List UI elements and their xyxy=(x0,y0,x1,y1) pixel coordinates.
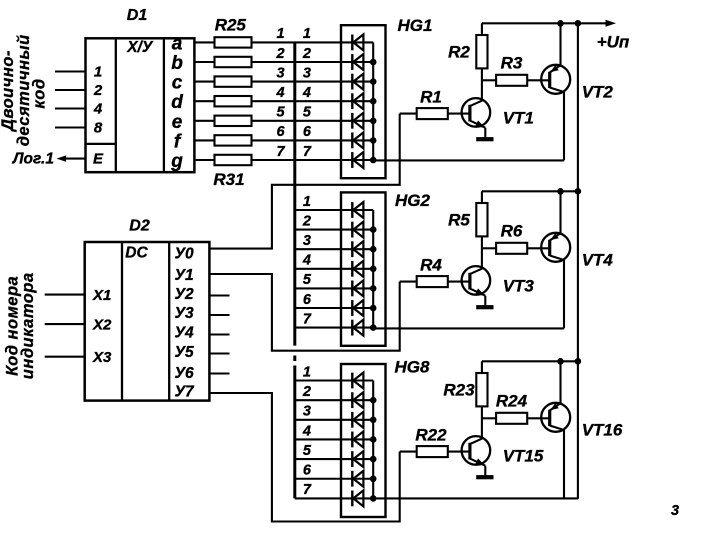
indicator HG2 box xyxy=(341,192,386,345)
wire bus tap to HG2 pin 7 xyxy=(295,327,341,329)
svg-text:X2: X2 xyxy=(92,317,112,334)
resistor R4 xyxy=(417,276,448,287)
ground symbol VT15 xyxy=(476,475,493,479)
HG1 LED diode 3 xyxy=(352,74,363,90)
wire D2 output Y5 stub xyxy=(209,352,229,354)
svg-text:R2: R2 xyxy=(448,43,470,62)
VT3 base bar xyxy=(468,273,471,290)
HG2 segment wire 3 xyxy=(341,248,373,250)
wire D1 out row 6 xyxy=(194,139,214,141)
wire D1 out row 4 xyxy=(194,100,214,102)
svg-text:a: a xyxy=(172,33,183,54)
svg-text:e: e xyxy=(172,112,183,133)
resistor R6 xyxy=(496,243,527,254)
bus line vertical lower xyxy=(293,366,296,499)
VT15 collector xyxy=(470,438,483,444)
HG1 segment wire 2 xyxy=(341,61,373,63)
junction dot rail main VT4 xyxy=(575,188,582,195)
HG1 LED diode 2 xyxy=(352,54,363,70)
wire R4 left xyxy=(400,281,417,283)
svg-text:R24: R24 xyxy=(496,392,528,411)
VT1 base bar xyxy=(468,105,471,122)
HG1 LED diode 7 xyxy=(352,152,363,168)
wire R2 to collector node xyxy=(481,68,483,100)
resistor R29 xyxy=(215,116,252,126)
VT4 base bar xyxy=(548,240,551,256)
transistor VT16 body xyxy=(541,403,570,432)
VT4 collector xyxy=(550,256,564,261)
svg-text:У2: У2 xyxy=(175,286,194,303)
wire bus tap to HG8 pin 2 xyxy=(295,399,341,401)
HG1 common anode line xyxy=(372,42,374,160)
wire bus tap to HG8 pin 6 xyxy=(295,478,341,480)
VT2 emitter xyxy=(550,65,561,73)
wire VT1 emitter to ground xyxy=(484,128,486,138)
HG1 segment wire 7 xyxy=(341,159,373,161)
svg-text:VT2: VT2 xyxy=(582,83,614,102)
svg-text:У6: У6 xyxy=(175,365,194,382)
transistor VT2 body xyxy=(541,65,570,94)
wire R30 to HG1 pin 6 xyxy=(252,139,342,141)
wire R27 to HG1 pin 3 xyxy=(252,81,342,83)
HG1 junction dot 2 xyxy=(370,59,377,66)
HG8 LED diode 6 xyxy=(352,471,363,487)
HG1 segment wire 5 xyxy=(341,120,373,122)
svg-text:b: b xyxy=(171,53,183,74)
wire net Y7 from D2 to R22 xyxy=(209,393,399,522)
wire R24 to VT16 base xyxy=(527,417,550,419)
IC D1 decoder box xyxy=(86,38,195,172)
svg-text:R4: R4 xyxy=(420,256,442,275)
wire bus tap to HG8 pin 7 xyxy=(295,497,341,499)
wire D2 output Y6 stub xyxy=(209,372,229,374)
indicator HG1 box xyxy=(341,25,386,178)
svg-text:Лог.1: Лог.1 xyxy=(12,151,54,168)
resistor R24 xyxy=(496,413,527,424)
svg-text:R25: R25 xyxy=(215,16,247,35)
HG2 junction dot 7 xyxy=(370,324,377,331)
svg-text:R1: R1 xyxy=(420,88,442,107)
wire D2 input X2 xyxy=(45,323,85,325)
VT16 emitter xyxy=(550,403,561,411)
wire R4 to VT3 base xyxy=(448,281,470,283)
rotated label binary-decimal code xyxy=(0,34,49,146)
wire D2 output Y4 stub xyxy=(209,333,229,335)
VT3 collector xyxy=(470,268,483,274)
wire bus tap to HG2 pin 6 xyxy=(295,307,341,309)
transistor VT3 body xyxy=(462,266,491,295)
junction dot rail emitter VT4 xyxy=(557,188,564,195)
svg-text:6: 6 xyxy=(303,463,312,479)
resistor R2 xyxy=(476,35,487,68)
wire bus tap to HG8 pin 3 xyxy=(295,419,341,421)
HG2 segment wire 5 xyxy=(341,287,373,289)
wire R1 left xyxy=(400,113,417,115)
svg-text:6: 6 xyxy=(277,124,286,140)
svg-text:код: код xyxy=(31,78,49,108)
HG2 LED diode 6 xyxy=(352,300,363,316)
VT1 collector xyxy=(470,100,483,106)
VT4 emitter xyxy=(550,233,561,241)
svg-text:2: 2 xyxy=(276,46,285,62)
HG2 junction dot 6 xyxy=(370,305,377,312)
HG1 junction dot 6 xyxy=(370,137,377,144)
main +Up rail vertical xyxy=(577,23,579,499)
wire R28 to HG1 pin 4 xyxy=(252,100,342,102)
bus break dash xyxy=(293,356,296,362)
HG2 LED diode 5 xyxy=(352,280,363,296)
wire net Y0 from D2 to R1 xyxy=(209,114,399,249)
svg-text:4: 4 xyxy=(302,85,311,101)
local rail section VT4 xyxy=(482,190,578,192)
svg-text:VT3: VT3 xyxy=(503,277,535,296)
wire VT2 collector to display common xyxy=(373,159,564,161)
svg-text:3: 3 xyxy=(303,404,311,420)
HG1 junction dot 7 xyxy=(370,157,377,164)
wire R22 to VT15 base xyxy=(448,451,470,453)
wire VT4 collector to display common xyxy=(373,327,564,329)
wire bus tap to HG2 pin 1 xyxy=(295,209,341,211)
wire net Y1 from D2 to R4 xyxy=(209,274,399,351)
junction dot rail main VT2 xyxy=(575,20,582,27)
rotated label indicator number code xyxy=(4,272,38,379)
svg-text:DC: DC xyxy=(125,245,148,262)
HG8 junction dot 6 xyxy=(370,475,377,482)
wire D1 out row 5 xyxy=(194,120,214,122)
svg-text:3: 3 xyxy=(303,233,311,249)
wire R29 to HG1 pin 5 xyxy=(252,120,342,122)
resistor R22 xyxy=(417,446,448,457)
svg-text:R23: R23 xyxy=(443,381,475,400)
HG2 LED diode 4 xyxy=(352,261,363,277)
wire bus tap to HG2 pin 3 xyxy=(295,248,341,250)
wire VT4 collector down xyxy=(563,260,565,329)
svg-text:d: d xyxy=(171,92,183,113)
svg-text:6: 6 xyxy=(303,292,312,308)
D1 column divider left xyxy=(115,38,117,172)
wire D1 out row 3 xyxy=(194,81,214,83)
resistor R1 xyxy=(417,108,448,119)
transistor VT15 body xyxy=(462,436,491,465)
transistor VT1 body xyxy=(462,98,491,127)
resistor R23 xyxy=(476,373,487,406)
svg-text:VT4: VT4 xyxy=(582,251,614,270)
svg-text:8: 8 xyxy=(94,120,103,137)
svg-text:У5: У5 xyxy=(175,344,194,361)
wire VT16 collector down xyxy=(563,430,565,499)
HG2 common anode line xyxy=(372,210,374,328)
svg-text:1: 1 xyxy=(94,64,102,81)
HG8 junction dot 7 xyxy=(370,495,377,502)
wire bus tap to HG2 pin 5 xyxy=(295,287,341,289)
svg-text:HG2: HG2 xyxy=(395,191,431,210)
wire bus tap to HG8 pin 1 xyxy=(295,379,341,381)
VT1 emitter xyxy=(470,120,485,127)
arrow +Up xyxy=(606,20,617,27)
HG1 LED diode 4 xyxy=(352,93,363,109)
HG8 LED diode 7 xyxy=(352,490,363,506)
HG2 segment wire 2 xyxy=(341,229,373,231)
HG8 segment wire 3 xyxy=(341,419,373,421)
wire R6 to VT4 base xyxy=(527,247,550,249)
wire VT3 emitter to ground xyxy=(484,296,486,306)
HG8 LED diode 4 xyxy=(352,431,363,447)
HG2 LED diode 1 xyxy=(352,202,363,218)
svg-text:R22: R22 xyxy=(415,426,447,445)
wire bus tap to HG2 pin 4 xyxy=(295,268,341,270)
local rail section VT16 xyxy=(482,360,578,362)
bus line vertical upper xyxy=(293,42,296,345)
HG8 segment wire 1 xyxy=(341,379,373,381)
svg-text:X3: X3 xyxy=(92,349,112,366)
svg-text:7: 7 xyxy=(277,144,286,160)
svg-text:3: 3 xyxy=(303,65,311,81)
svg-text:X/У: X/У xyxy=(126,39,154,56)
HG1 junction dot 3 xyxy=(370,78,377,85)
resistor R5 xyxy=(476,203,487,236)
D2 column divider right xyxy=(168,242,170,401)
HG2 junction dot 4 xyxy=(370,266,377,273)
wire D2 output Y3 stub xyxy=(209,314,229,316)
VT15 base bar xyxy=(468,443,471,460)
HG8 junction dot 5 xyxy=(370,456,377,463)
svg-text:HG8: HG8 xyxy=(395,358,431,377)
svg-text:3: 3 xyxy=(671,503,679,519)
wire D1 input 8 xyxy=(55,126,86,128)
HG8 LED diode 3 xyxy=(352,412,363,428)
svg-text:4: 4 xyxy=(93,101,103,118)
wire node to R24 xyxy=(482,417,496,419)
svg-text:VT1: VT1 xyxy=(503,109,534,128)
HG1 LED diode 6 xyxy=(352,132,363,148)
wire VT2 emitter to rail xyxy=(559,23,561,65)
junction dot rail emitter VT2 xyxy=(557,20,564,27)
wire rail to R23 xyxy=(481,361,483,373)
svg-text:g: g xyxy=(170,151,183,172)
HG1 junction dot 4 xyxy=(370,98,377,105)
wire bus tap to HG2 pin 2 xyxy=(295,229,341,231)
wire rail to R2 xyxy=(481,23,483,35)
HG1 segment wire 3 xyxy=(341,81,373,83)
VT16 collector xyxy=(550,426,564,431)
HG8 LED diode 1 xyxy=(352,373,363,389)
wire R3 to VT2 base xyxy=(527,79,550,81)
wire VT16 emitter to rail xyxy=(559,361,561,403)
svg-text:У4: У4 xyxy=(175,325,194,342)
svg-text:7: 7 xyxy=(303,482,312,498)
HG1 LED diode 1 xyxy=(352,34,363,50)
svg-text:+Uп: +Uп xyxy=(597,33,630,52)
svg-text:1: 1 xyxy=(303,26,311,42)
svg-text:3: 3 xyxy=(277,65,285,81)
HG2 junction dot 2 xyxy=(370,226,377,233)
HG2 LED diode 3 xyxy=(352,241,363,257)
resistor R27 xyxy=(215,76,252,86)
VT2 base bar xyxy=(548,72,551,88)
svg-text:4: 4 xyxy=(302,423,311,439)
svg-text:У3: У3 xyxy=(175,305,194,322)
svg-text:5: 5 xyxy=(277,105,286,121)
svg-text:R6: R6 xyxy=(501,222,523,241)
HG8 segment wire 2 xyxy=(341,399,373,401)
wire node to R6 xyxy=(482,247,496,249)
svg-text:R31: R31 xyxy=(213,170,244,189)
svg-text:2: 2 xyxy=(93,82,103,99)
wire D1 out row 7 xyxy=(194,159,214,161)
HG8 segment wire 5 xyxy=(341,458,373,460)
wire bus tap to HG8 pin 5 xyxy=(295,458,341,460)
resistor R26 xyxy=(215,57,252,67)
wire E input xyxy=(63,158,86,160)
wire VT4 emitter to rail xyxy=(559,191,561,233)
HG2 junction dot 5 xyxy=(370,285,377,292)
wire bus tap to HG8 pin 4 xyxy=(295,438,341,440)
svg-text:5: 5 xyxy=(303,272,312,288)
svg-text:У7: У7 xyxy=(175,384,195,401)
indicator HG8 box xyxy=(341,364,386,517)
svg-text:7: 7 xyxy=(303,144,312,160)
junction dot rail emitter VT16 xyxy=(557,358,564,365)
wire D1 input 1 xyxy=(55,70,86,72)
svg-text:1: 1 xyxy=(277,26,285,42)
VT16 base bar xyxy=(548,410,551,426)
HG8 common anode line xyxy=(372,381,374,499)
HG1 segment wire 1 xyxy=(341,41,373,43)
arrow on E wire xyxy=(57,155,67,161)
svg-text:4: 4 xyxy=(276,85,285,101)
svg-text:D1: D1 xyxy=(127,7,148,24)
wire R31 to HG1 pin 7 xyxy=(252,159,342,161)
wire VT15 emitter to ground xyxy=(484,466,486,476)
wire R26 to HG1 pin 2 xyxy=(252,61,342,63)
HG8 junction dot 2 xyxy=(370,397,377,404)
wire VT16 collector to display common xyxy=(373,497,578,499)
svg-text:5: 5 xyxy=(303,105,312,121)
svg-text:1: 1 xyxy=(303,364,311,380)
ground symbol VT1 xyxy=(476,137,493,141)
svg-text:VT15: VT15 xyxy=(503,447,544,466)
transistor VT4 body xyxy=(541,233,570,262)
HG8 junction dot 3 xyxy=(370,417,377,424)
D2 column divider left xyxy=(121,242,123,401)
wire VT2 collector down xyxy=(563,92,565,161)
wire D2 output Y2 stub xyxy=(209,294,229,296)
HG8 segment wire 4 xyxy=(341,438,373,440)
svg-text:индикатора: индикатора xyxy=(19,272,37,379)
svg-text:X1: X1 xyxy=(92,287,111,304)
D1 E separator xyxy=(86,143,116,145)
power rail +Up xyxy=(482,22,612,24)
HG2 LED diode 2 xyxy=(352,222,363,238)
wire R1 to VT1 base xyxy=(448,113,470,115)
HG1 junction dot 5 xyxy=(370,118,377,125)
HG1 segment wire 4 xyxy=(341,100,373,102)
wire rail to R5 xyxy=(481,191,483,203)
resistor R3 xyxy=(496,75,527,86)
HG1 segment wire 6 xyxy=(341,139,373,141)
HG8 segment wire 6 xyxy=(341,478,373,480)
resistor R31 xyxy=(215,155,252,165)
svg-text:5: 5 xyxy=(303,443,312,459)
svg-text:2: 2 xyxy=(302,46,311,62)
svg-text:2: 2 xyxy=(302,213,311,229)
svg-text:4: 4 xyxy=(302,253,311,269)
svg-text:1: 1 xyxy=(303,194,311,210)
svg-text:R5: R5 xyxy=(448,211,470,230)
svg-text:R3: R3 xyxy=(501,54,523,73)
HG8 segment wire 7 xyxy=(341,497,373,499)
wire R23 to collector node xyxy=(481,406,483,438)
HG1 LED diode 5 xyxy=(352,113,363,129)
svg-text:У1: У1 xyxy=(175,267,194,284)
svg-text:c: c xyxy=(172,73,183,94)
ground symbol VT3 xyxy=(476,305,493,309)
svg-text:D2: D2 xyxy=(129,218,150,235)
D1 column divider right xyxy=(163,38,165,172)
wire D1 out row 1 xyxy=(194,41,214,43)
wire D2 input X3 xyxy=(45,356,85,358)
svg-text:VT16: VT16 xyxy=(582,421,623,440)
VT2 collector xyxy=(550,88,564,93)
HG2 segment wire 1 xyxy=(341,209,373,211)
HG8 LED diode 5 xyxy=(352,451,363,467)
wire R25 to HG1 pin 1 xyxy=(252,41,342,43)
svg-text:7: 7 xyxy=(303,311,312,327)
VT3 emitter xyxy=(470,288,485,295)
wire D1 out row 2 xyxy=(194,61,214,63)
IC D2 decoder box xyxy=(85,242,210,401)
wire D1 input 4 xyxy=(55,107,86,109)
svg-text:2: 2 xyxy=(302,384,311,400)
HG2 junction dot 3 xyxy=(370,246,377,253)
svg-text:E: E xyxy=(93,151,104,168)
HG8 LED diode 2 xyxy=(352,392,363,408)
svg-text:6: 6 xyxy=(303,124,312,140)
svg-text:У0: У0 xyxy=(175,246,194,263)
svg-text:HG1: HG1 xyxy=(398,16,433,35)
junction dot rail main VT16 xyxy=(575,358,582,365)
HG2 segment wire 7 xyxy=(341,327,373,329)
resistor R30 xyxy=(215,135,252,145)
HG2 LED diode 7 xyxy=(352,320,363,336)
VT15 emitter xyxy=(470,458,485,465)
resistor R28 xyxy=(215,96,252,106)
wire node to R3 xyxy=(482,79,496,81)
wire D1 input 2 xyxy=(55,89,86,91)
HG2 segment wire 4 xyxy=(341,268,373,270)
resistor R25 xyxy=(215,37,252,47)
HG2 segment wire 6 xyxy=(341,307,373,309)
wire R22 left xyxy=(400,451,417,453)
wire D2 input X1 xyxy=(45,294,85,296)
wire R5 to collector node xyxy=(481,236,483,268)
HG8 junction dot 4 xyxy=(370,436,377,443)
